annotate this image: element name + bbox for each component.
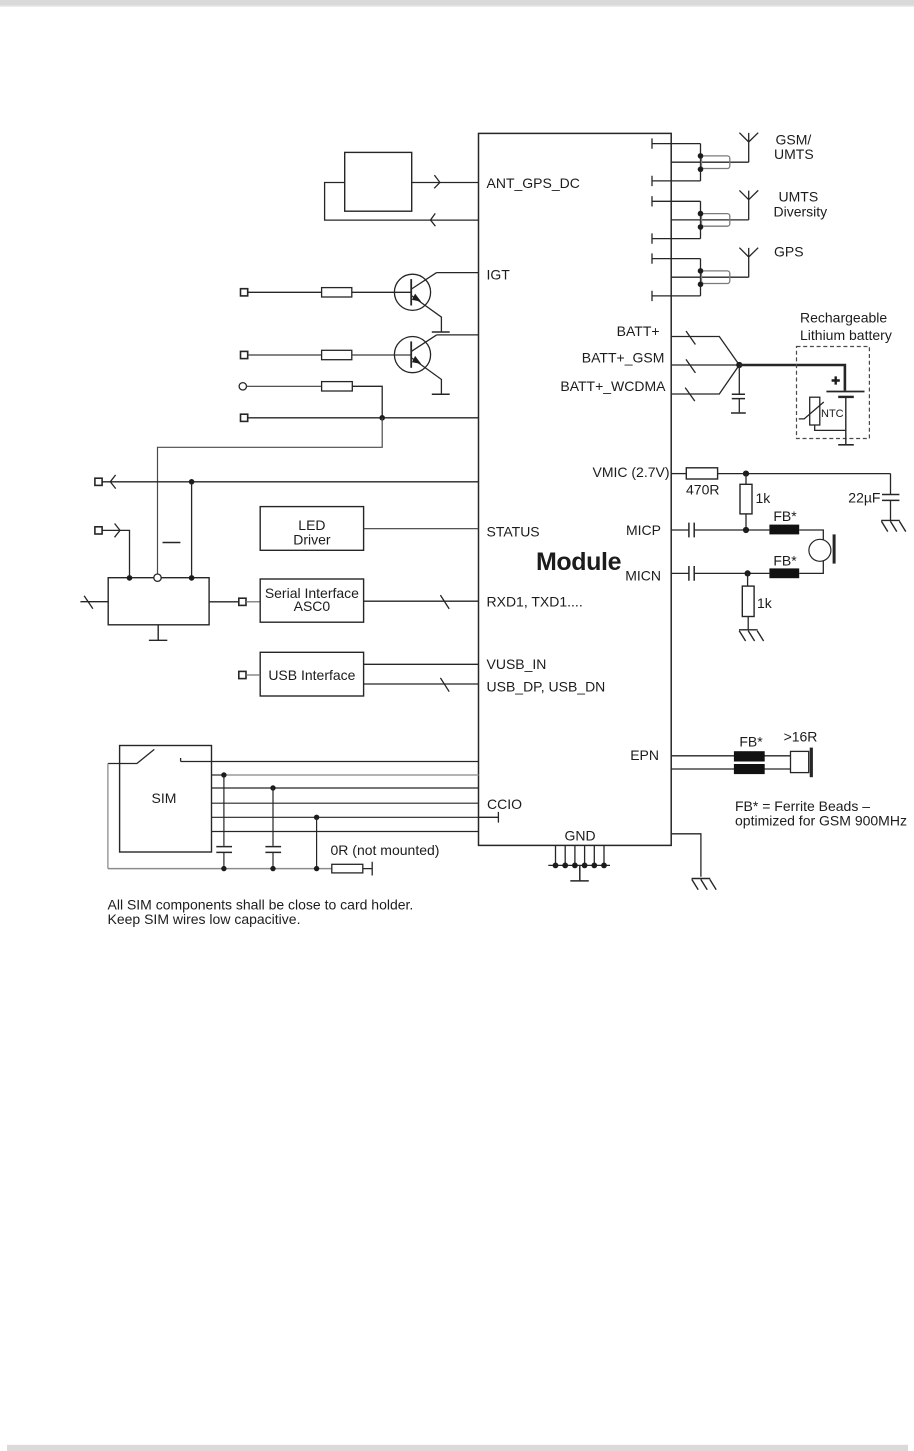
ferrite bead FB* (EPN upper) [734, 751, 765, 761]
svg-text:470R: 470R [686, 482, 719, 498]
battery plus sign [832, 376, 840, 384]
capacitor 22uF [882, 474, 899, 521]
wire BATT+_WCDMA [671, 365, 739, 401]
svg-text:FB*: FB* [773, 508, 797, 524]
input open circle row3 [239, 383, 246, 390]
ferrite bead FB* (MICP) [769, 525, 799, 535]
transistor Q2 [394, 335, 449, 394]
CCIO pin stub [479, 812, 499, 823]
wire serial to RXD1 with slash [364, 595, 479, 609]
input pin square long wire [95, 478, 102, 485]
bus junction dots [221, 866, 226, 871]
GND pins [556, 845, 605, 865]
svg-text:ASC0: ASC0 [294, 598, 331, 614]
svg-text:22µF: 22µF [848, 490, 880, 506]
wire junction to control box [191, 482, 193, 578]
speaker >16R [791, 748, 812, 778]
wire 0R to tick [363, 862, 372, 876]
svg-text:VMIC (2.7V): VMIC (2.7V) [592, 464, 669, 480]
page footer bar [7, 1445, 908, 1451]
svg-text:BATT+_GSM: BATT+_GSM [582, 349, 665, 365]
wire MICP with series capacitor [671, 523, 769, 538]
SIM wire 3 [212, 787, 479, 789]
resistor 0R [332, 864, 363, 873]
GND bus line [548, 864, 610, 866]
svg-text:BATT+_WCDMA: BATT+_WCDMA [560, 378, 666, 394]
capacitor C2 (SIM) [265, 788, 281, 869]
pin square serial [239, 598, 246, 605]
dash mark [163, 542, 181, 544]
wire resistor to base Q2 [352, 354, 411, 356]
wire LED to STATUS [364, 528, 479, 530]
junction VMIC/1k [743, 471, 749, 477]
input pin square row1 [241, 289, 248, 296]
wire USB to VUSB_IN [364, 663, 479, 665]
ferrite bead FB* (MICN) [769, 568, 799, 578]
serial interface box [260, 579, 363, 622]
wire resistor to base Q1 [352, 291, 411, 293]
wire USB to USB_DP/DN with slash [364, 678, 479, 692]
SIM ground bus [108, 868, 332, 870]
page header bar [0, 0, 914, 6]
pin square USB [239, 671, 246, 678]
control box right wire to pin square [209, 601, 239, 603]
input pin square row4 [241, 414, 248, 421]
SIM holder box [120, 746, 212, 853]
svg-text:GND: GND [564, 828, 595, 844]
junction MICP/1k [743, 527, 749, 533]
svg-text:USB_DP, USB_DN: USB_DP, USB_DN [487, 679, 606, 695]
SIM wire 2 [212, 774, 224, 776]
module U1 [479, 133, 672, 845]
wire 470R to 22uF [718, 473, 891, 475]
resistor 470R [686, 468, 717, 479]
transistor Q1 [394, 273, 449, 332]
junction row3/row4 [379, 415, 385, 421]
svg-text:Diversity: Diversity [774, 203, 828, 219]
antenna group 1 (GSM/UMTS) [652, 133, 758, 186]
svg-text:UMTS: UMTS [779, 189, 819, 205]
svg-text:MICP: MICP [626, 522, 661, 538]
resistor 1k upper [740, 474, 752, 530]
svg-text:Module: Module [536, 548, 622, 576]
wire VMIC [671, 473, 686, 475]
svg-text:>16R: >16R [784, 728, 818, 744]
SIM detect contact + wire to module [181, 758, 479, 762]
svg-text:1k: 1k [756, 490, 772, 506]
svg-text:Lithium battery: Lithium battery [800, 327, 892, 343]
SIM wire 6 [212, 831, 479, 833]
svg-text:GSM/: GSM/ [776, 131, 812, 147]
svg-text:1k: 1k [757, 595, 773, 611]
svg-text:optimized for GSM 900MHz: optimized for GSM 900MHz [735, 813, 907, 829]
wire box to ANT_GPS_DC with arrow [412, 175, 479, 188]
wire FB to mic - [799, 561, 823, 574]
antenna group 2 (UMTS diversity) [652, 190, 758, 243]
chassis ground bottom right [692, 879, 717, 890]
junction BATT [736, 362, 742, 368]
wire Q2 collector to module [437, 334, 479, 336]
bus left loop to SIM switch [107, 764, 109, 869]
decoupling capacitor at BATT [731, 365, 746, 413]
control box terminal dots [127, 575, 133, 581]
wire row3 to junction [352, 386, 382, 418]
SIM detect switch blade [108, 749, 154, 763]
svg-text:GPS: GPS [774, 243, 804, 259]
input pin square row2 [241, 351, 248, 358]
svg-text:0R (not mounted): 0R (not mounted) [331, 842, 440, 858]
resistor row3 [322, 382, 353, 391]
resistor 1k lower [742, 573, 754, 629]
wire junction down-left to control box circle [158, 418, 383, 574]
input pin square row6 [95, 527, 102, 534]
thermistor NTC [799, 397, 846, 430]
svg-text:FB*: FB* [739, 733, 763, 749]
svg-text:MICN: MICN [625, 568, 661, 584]
junction MICN/1k [745, 570, 751, 576]
wire row6 with arrow to control box [102, 524, 129, 578]
svg-text:RXD1, TXD1....: RXD1, TXD1.... [487, 594, 583, 610]
chassis ground below 22uF [881, 520, 906, 531]
USB interface box [260, 652, 363, 696]
svg-text:STATUS: STATUS [487, 524, 540, 540]
wire row1 [248, 291, 322, 293]
capacitor C1 (SIM) [216, 775, 232, 869]
svg-text:Driver: Driver [293, 531, 331, 547]
wire row3 [247, 385, 322, 387]
wire EPN pair [671, 756, 790, 769]
wire row4 to module [248, 417, 479, 419]
svg-text:USB Interface: USB Interface [268, 667, 355, 683]
svg-text:ANT_GPS_DC: ANT_GPS_DC [487, 175, 580, 191]
wire MICN with series capacitor [671, 566, 769, 581]
control box left wire with slash [80, 596, 108, 609]
svg-text:Keep SIM wires low capacitive.: Keep SIM wires low capacitive. [108, 911, 301, 927]
svg-text:VUSB_IN: VUSB_IN [487, 656, 547, 672]
junction SIM wire5 drop [314, 815, 319, 820]
wire BATT+_GSM [671, 359, 739, 373]
svg-text:IGT: IGT [487, 267, 511, 283]
bold battery wire [739, 365, 845, 391]
svg-text:UMTS: UMTS [774, 146, 814, 162]
antenna group 3 (GPS) [652, 248, 758, 301]
svg-text:All SIM components shall be cl: All SIM components shall be close to car… [108, 896, 414, 912]
svg-text:NTC: NTC [821, 408, 844, 420]
svg-text:BATT+: BATT+ [617, 323, 660, 339]
junction on long wire [189, 479, 195, 485]
SIM wire 4 [212, 802, 479, 804]
ground below GND pins [570, 865, 589, 881]
LED driver box [260, 507, 363, 551]
ferrite bead FB* (EPN lower) [734, 764, 765, 774]
wire drop to bus [316, 817, 318, 868]
wire square to serial box [246, 601, 260, 603]
SIM wire 5 (CCIO) [212, 816, 479, 818]
wire square to USB box [246, 674, 260, 676]
long wire to module with arrow [102, 475, 478, 489]
junction SIM cap1 [221, 772, 226, 777]
wire module to box (return) with arrow [325, 183, 479, 227]
wire module to chassis ground [671, 834, 701, 877]
svg-text:EPN: EPN [630, 747, 659, 763]
svg-text:Rechargeable: Rechargeable [800, 310, 887, 326]
resistor row1 [322, 288, 352, 297]
svg-text:CCIO: CCIO [487, 796, 522, 812]
svg-text:FB*: FB* [773, 553, 797, 569]
battery cell B1 [826, 392, 864, 445]
control box [108, 578, 209, 625]
resistor row2 [322, 350, 352, 359]
GND junction dots [553, 863, 607, 869]
battery pack dashed box [797, 347, 870, 439]
wire BATT+ [671, 331, 739, 365]
junction SIM cap2 [270, 785, 275, 790]
wire row2 [248, 354, 322, 356]
wire FB to mic + [799, 530, 823, 540]
wire Q1 collector to IGT [437, 272, 479, 274]
microphone MK1 [809, 534, 834, 563]
control box open-circle terminal [154, 574, 161, 581]
top-left box (antenna supply) [345, 152, 412, 211]
svg-text:SIM: SIM [152, 790, 177, 806]
control box ground [149, 625, 167, 641]
chassis ground below 1k [739, 630, 764, 641]
